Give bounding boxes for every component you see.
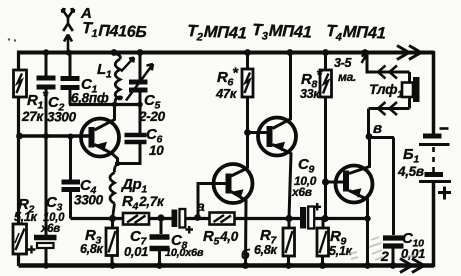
- node: C2 rail junction: [43, 49, 49, 55]
- node: R8 rail junction: [322, 49, 329, 56]
- svg-text:3300: 3300: [74, 193, 104, 208]
- resistor R7 6,8k: [283, 219, 295, 267]
- node: T2 emitter / R7 junction: [285, 215, 292, 222]
- wire R2 to bottom rail: [17, 254, 20, 266]
- headphone Tlf1: [402, 77, 420, 102]
- svg-text:0,01: 0,01: [401, 246, 425, 261]
- svg-text:5,1к: 5,1к: [329, 244, 352, 258]
- wire T4 base: [326, 181, 344, 184]
- capacitor C5 2-20 trimmer: [129, 51, 148, 105]
- node: T3 emitter bottom rail junction: [242, 262, 249, 269]
- resistor R6* 47k: [242, 53, 253, 98]
- node: emitter/C6 junction: [115, 161, 120, 166]
- resistor R4 2,7k: [123, 213, 149, 225]
- wire C2/C3 vertical: [45, 53, 48, 236]
- arrows on bottom rail: [400, 259, 424, 273]
- node: R9 junction: [321, 215, 328, 222]
- choke Dr1: [110, 164, 118, 219]
- wire top rail: [19, 51, 435, 55]
- wire phone top lead: [366, 53, 410, 83]
- wire R6 to T3 collector: [246, 97, 249, 169]
- svg-text:Тлф1: Тлф1: [369, 81, 403, 101]
- node: R7 bottom rail junction: [285, 262, 292, 269]
- capacitor C2 3300: [37, 78, 56, 87]
- node: tank wire / collector junction: [112, 102, 118, 108]
- transistor T2 MP41: [258, 53, 296, 219]
- svg-text:С9: С9: [298, 156, 315, 176]
- node: phone rail junction: [362, 49, 369, 56]
- transistor T4 MP41: [336, 137, 373, 267]
- wire audio bus y218: [71, 217, 369, 220]
- svg-text:33к: 33к: [300, 87, 320, 101]
- node: base-divider junction: [16, 133, 23, 140]
- svg-text:6,8пф: 6,8пф: [71, 91, 109, 106]
- capacitor C4 3300: [62, 137, 81, 219]
- svg-text:Т4МП41: Т4МП41: [326, 22, 386, 46]
- antenna: [62, 9, 74, 31]
- svg-text:2-20: 2-20: [138, 109, 166, 124]
- node: C4/base line junction: [68, 134, 74, 140]
- svg-text:3300: 3300: [47, 110, 77, 125]
- node: C5 rail junction: [137, 49, 144, 56]
- node: R3 bottom rail junction: [109, 262, 116, 269]
- svg-text:5,1к: 5,1к: [14, 210, 37, 224]
- wire right vertical to battery: [432, 51, 436, 134]
- resistor R8* 33k: [320, 53, 332, 98]
- wire node v to C10: [369, 138, 394, 236]
- svg-text:б: б: [241, 246, 250, 262]
- capacitor C3 10,0x6v electrolytic: [28, 238, 57, 267]
- wire node a to T3 base: [198, 184, 226, 218]
- svg-text:а: а: [197, 198, 205, 214]
- node: T4 emitter bus junction: [364, 215, 370, 221]
- svg-text:6,8к: 6,8к: [254, 243, 277, 257]
- svg-text:R6*: R6*: [217, 65, 239, 89]
- node: R6 rail junction: [244, 49, 251, 56]
- node: C7 bottom rail junction: [156, 262, 163, 269]
- svg-text:47к: 47к: [215, 86, 238, 101]
- wire bottom rail: [19, 263, 435, 268]
- wire battery bottom to rail: [432, 183, 436, 267]
- L1 tuning arrow: [121, 58, 134, 72]
- resistor R2 5,1k: [13, 224, 27, 254]
- phone plug arrows on top lead: [378, 66, 397, 79]
- svg-text:10,0х6в: 10,0х6в: [165, 247, 204, 259]
- svg-text:ма.: ма.: [338, 70, 356, 84]
- phone plug arrow top: [362, 55, 367, 64]
- svg-text:х6в: х6в: [291, 185, 312, 199]
- node v junction: [366, 133, 373, 140]
- inductor L1: [114, 53, 122, 105]
- node: T2 collector rail junction: [287, 49, 294, 56]
- svg-text:27к: 27к: [21, 109, 44, 124]
- speck marks top left: [8, 38, 10, 40]
- svg-text:10: 10: [149, 143, 164, 158]
- node: C2/base line junction: [43, 133, 49, 139]
- resistor R1 27k: [14, 70, 27, 97]
- node a: [194, 214, 201, 221]
- node: T4 emitter bottom rail junction: [364, 262, 371, 269]
- svg-text:Б1: Б1: [403, 146, 419, 166]
- capacitor C9 10,0x6v electrolytic: [300, 203, 321, 229]
- node: T4 base junction: [322, 178, 329, 185]
- svg-text:4,5в: 4,5в: [397, 164, 424, 179]
- resistor R5 4,0: [210, 213, 235, 225]
- node: R9 bottom rail junction: [319, 262, 326, 269]
- node: L1 rail junction: [111, 49, 118, 56]
- svg-text:Т3МП41: Т3МП41: [252, 21, 312, 45]
- transistor T3 MP41: [214, 164, 253, 266]
- svg-text:R54,0: R54,0: [203, 228, 239, 248]
- wire T1 base bias line: [19, 134, 90, 137]
- svg-text:х6в: х6в: [40, 223, 60, 235]
- svg-text:С3: С3: [46, 194, 63, 214]
- wire phone bottom lead: [369, 97, 410, 138]
- battery plus label: [438, 187, 451, 200]
- svg-text:Т1П416Б: Т1П416Б: [82, 20, 147, 42]
- capacitor C1 6,8pf: [61, 51, 80, 105]
- svg-text:в: в: [373, 120, 382, 137]
- capacitor C7 0,01: [150, 219, 170, 267]
- node: C10 bottom rail junction: [390, 262, 397, 269]
- wire left vertical (rail to R1): [17, 51, 20, 71]
- arrows on top rail: [397, 46, 421, 60]
- battery B1 4,5v: [419, 136, 451, 182]
- wire tank top (C1 bottom to C5 bottom): [69, 103, 140, 106]
- battery minus label: [440, 127, 449, 130]
- capacitor C6 10: [117, 105, 147, 164]
- phone plug arrows on bottom lead: [378, 102, 397, 115]
- svg-text:3-5: 3-5: [334, 56, 353, 70]
- svg-text:0,01: 0,01: [124, 244, 148, 259]
- svg-text:Т2МП41: Т2МП41: [187, 22, 247, 46]
- scan smudges: [349, 237, 416, 260]
- capacitor C10 0,01: [383, 238, 404, 266]
- capacitor C8 10,0x6v electrolytic: [172, 209, 194, 234]
- wire T2 base: [248, 131, 267, 134]
- node: tank wire / C5-C6 junction: [137, 102, 143, 108]
- wire R8 to T4 base and bus: [324, 97, 327, 219]
- node: R3/Dr1 junction: [109, 215, 116, 222]
- C5 trimmer arrow: [126, 64, 153, 101]
- resistor R9 5,1k: [317, 219, 329, 267]
- node: T2 base junction: [244, 129, 251, 136]
- transistor T1 P416B: [81, 105, 119, 165]
- svg-text:R42,7к: R42,7к: [122, 193, 165, 213]
- node: antenna-rail junction: [66, 50, 72, 56]
- node: C7 junction: [157, 214, 164, 221]
- antenna plug arrow: [64, 35, 72, 53]
- wire R1 to R2: [17, 97, 20, 224]
- svg-text:6,8к: 6,8к: [80, 242, 103, 256]
- resistor R3 6,8k: [106, 219, 118, 267]
- svg-text:L1: L1: [97, 61, 112, 81]
- node: C3 bottom rail junction: [43, 262, 49, 268]
